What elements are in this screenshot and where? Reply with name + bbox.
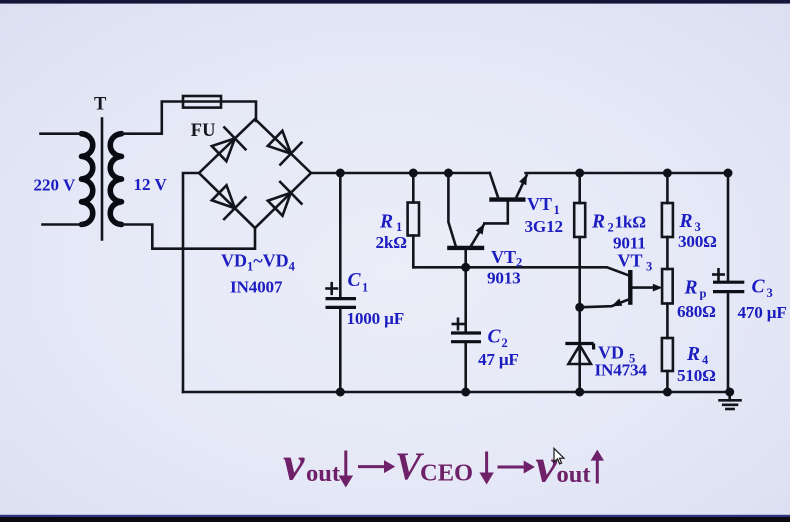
svg-text:R: R	[679, 211, 693, 232]
diode VD2 (top-right edge)	[264, 126, 303, 165]
transistor VT1 body	[489, 197, 525, 201]
svg-text:p: p	[700, 287, 707, 301]
svg-text:680Ω: 680Ω	[677, 302, 716, 321]
wire secondary bottom lead to bridge bottom	[120, 225, 255, 249]
resistor R1	[412, 173, 415, 203]
wire bottom ground rail	[183, 391, 730, 394]
svg-text:3: 3	[646, 260, 652, 274]
transistor VT2 body	[447, 246, 484, 250]
capacitor C3	[727, 173, 730, 281]
wire top rail left segment	[311, 172, 490, 175]
svg-text:1: 1	[362, 280, 368, 294]
svg-text:3G12: 3G12	[525, 217, 563, 236]
transistor VT3 emitter	[580, 299, 630, 308]
svg-text:T: T	[94, 95, 107, 115]
transistor VT2 base wire	[464, 248, 467, 267]
svg-text:v: v	[283, 438, 305, 491]
svg-text:R: R	[684, 278, 698, 299]
formula right arrow 2	[498, 461, 535, 474]
diode VD4 (bottom-right edge)	[264, 181, 303, 220]
svg-text:CEO: CEO	[420, 460, 473, 487]
wire bridge negative to ground rail	[183, 173, 199, 392]
wire top rail right segment	[526, 172, 728, 175]
transistor VT1 emitter	[515, 176, 526, 200]
svg-text:3: 3	[767, 286, 773, 300]
wire primary top lead	[41, 132, 83, 135]
svg-text:FU: FU	[191, 121, 216, 141]
svg-text:510Ω: 510Ω	[677, 366, 716, 385]
fuse FU	[183, 96, 221, 108]
junction node dots	[336, 169, 345, 178]
svg-text:R: R	[379, 211, 393, 232]
diode VD3 (left-bottom edge)	[208, 181, 247, 220]
svg-text:VT: VT	[618, 251, 643, 271]
ground symbol	[728, 392, 731, 400]
transistor VT3 base wire to potentiometer wiper	[633, 286, 659, 289]
svg-text:1kΩ: 1kΩ	[615, 212, 646, 231]
svg-text:C: C	[348, 270, 362, 291]
bottom border bar	[0, 515, 790, 517]
svg-text:out: out	[306, 460, 341, 487]
wire drive line (R1 bottom to VT3 collector)	[413, 267, 630, 276]
wire secondary top lead to fuse and bridge top	[120, 102, 256, 134]
svg-text:VD1~VD4: VD1~VD4	[221, 251, 296, 274]
diode VD1 (left-top edge)	[208, 126, 247, 165]
formula right arrow 1	[358, 460, 395, 473]
zener diode VD5	[565, 342, 593, 345]
formula down arrow 1	[339, 451, 354, 488]
svg-text:300Ω: 300Ω	[678, 232, 717, 251]
svg-text:2: 2	[516, 256, 522, 270]
capacitor C1	[339, 173, 342, 297]
svg-text:12 V: 12 V	[134, 175, 168, 194]
C3 plus sign	[713, 269, 723, 279]
top border bar	[0, 0, 790, 4]
resistor R4	[662, 338, 673, 371]
transformer T core	[101, 119, 104, 240]
transistor VT3 body	[628, 270, 632, 305]
transformer T primary winding	[82, 134, 93, 225]
svg-text:1: 1	[554, 203, 560, 217]
svg-text:1000 μF: 1000 μF	[347, 309, 405, 328]
svg-text:2: 2	[502, 336, 508, 350]
wire VT2 emitter to VT1 base	[484, 200, 508, 224]
bridge rectifier frame	[199, 119, 311, 228]
svg-text:VD: VD	[598, 343, 624, 363]
resistor R2	[578, 173, 581, 203]
svg-text:C: C	[488, 327, 502, 348]
svg-text:220 V: 220 V	[34, 176, 76, 195]
svg-text:2kΩ: 2kΩ	[376, 233, 407, 252]
mouse cursor	[554, 448, 564, 464]
potentiometer Rp	[662, 269, 673, 304]
svg-text:47 μF: 47 μF	[478, 350, 519, 369]
svg-text:9013: 9013	[487, 269, 521, 288]
C2 plus sign	[453, 319, 463, 329]
capacitor C2	[464, 267, 467, 331]
svg-text:IN4734: IN4734	[595, 361, 648, 380]
svg-text:470 μF: 470 μF	[738, 303, 787, 322]
svg-text:out: out	[557, 461, 592, 488]
resistor R3	[666, 173, 669, 203]
transformer T secondary winding	[110, 134, 121, 225]
transistor VT2 collector wire	[448, 173, 456, 248]
svg-text:2: 2	[608, 220, 614, 234]
svg-text:VT: VT	[527, 194, 552, 214]
wire primary bottom lead	[43, 223, 83, 226]
formula down arrow 2	[479, 452, 493, 485]
svg-text:R: R	[686, 344, 700, 365]
C1 plus sign	[327, 283, 338, 294]
transistor VT2 emitter	[470, 225, 484, 248]
formula up arrow	[591, 450, 604, 484]
svg-text:IN4007: IN4007	[230, 278, 283, 297]
svg-text:v: v	[536, 440, 558, 493]
svg-text:VT: VT	[491, 247, 516, 267]
svg-text:R: R	[591, 211, 605, 232]
svg-text:4: 4	[702, 353, 709, 367]
transistor VT1 collector	[490, 173, 499, 200]
svg-text:C: C	[752, 277, 766, 298]
